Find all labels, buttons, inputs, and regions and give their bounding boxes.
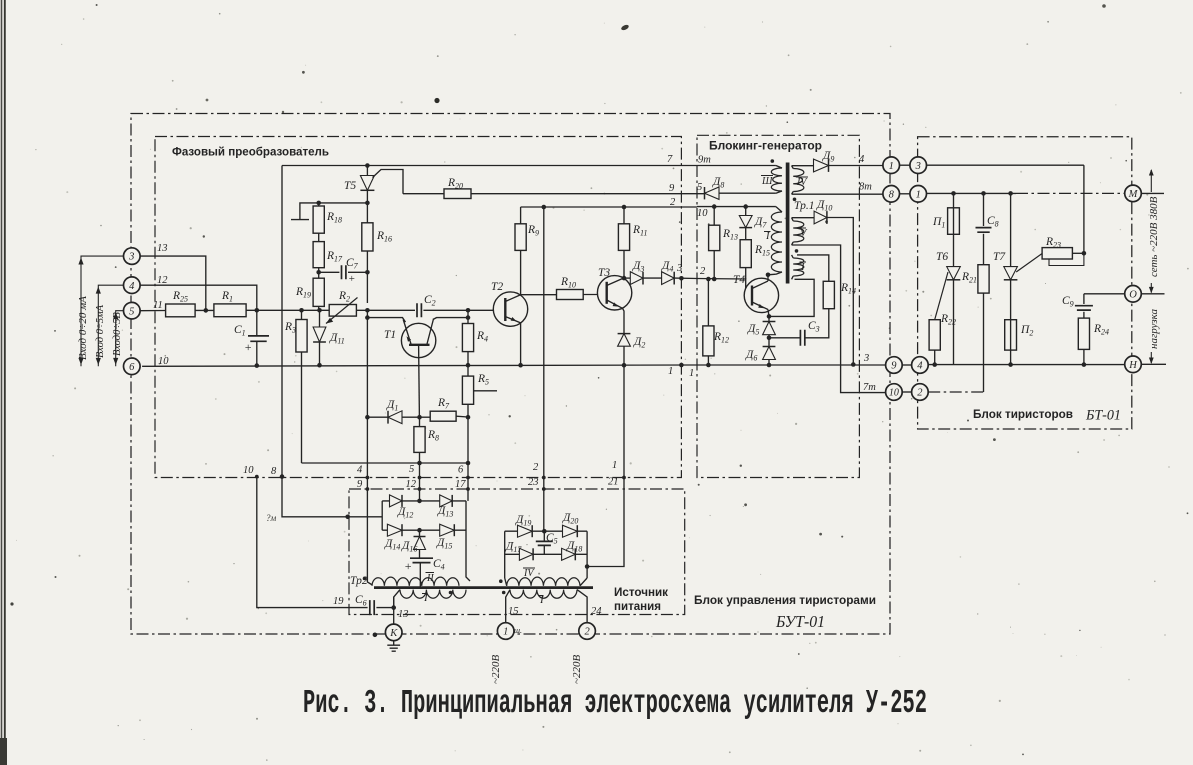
svg-text:10: 10: [158, 356, 169, 367]
diode Д15: [440, 524, 455, 536]
junction R13 bottom: [712, 277, 717, 282]
svg-text:1: 1: [916, 189, 921, 200]
wire R18top to T5 column: [319, 202, 368, 204]
terminal circle 10: [886, 384, 903, 401]
resistor R24: [1078, 318, 1089, 349]
diode D2: [618, 334, 631, 347]
svg-text:8: 8: [271, 466, 277, 477]
wire bridge1 right rail: [466, 501, 470, 581]
dimension arrow above Н: [1150, 352, 1152, 363]
transistor T3: [597, 276, 631, 310]
junction main-R3: [299, 308, 304, 313]
svg-text:24: 24: [591, 606, 602, 617]
box thyristor block BT-01: [918, 137, 1132, 429]
svg-text:Блок тиристоров: Блок тиристоров: [973, 409, 1073, 421]
terminal circle 1b: [910, 186, 927, 203]
junction R4-rail1: [466, 363, 471, 368]
junction col4/9 row489: [366, 487, 370, 491]
svg-text:5: 5: [697, 182, 702, 193]
svg-text:1: 1: [889, 161, 894, 172]
Tr2 phasing dot mid: [449, 591, 453, 595]
diode Д18: [562, 548, 576, 560]
Tr2 phasing dot left: [363, 577, 367, 581]
svg-text:2: 2: [670, 197, 676, 208]
svg-text:Н: Н: [1128, 360, 1138, 371]
diode D4: [662, 272, 675, 285]
Tr2 winding IV: [507, 577, 580, 586]
diode Д12: [390, 495, 403, 507]
diode D3: [624, 277, 630, 279]
resistor R22: [929, 320, 940, 350]
diode D10: [792, 217, 815, 219]
wire R5 stub: [474, 390, 497, 392]
svg-text:К: К: [389, 628, 398, 639]
junction col6/17 row477: [466, 476, 470, 480]
svg-text:3: 3: [676, 263, 682, 274]
svg-text:8т: 8т: [859, 182, 872, 193]
Tr1 winding I left: [771, 212, 782, 272]
wire R18 top stub: [291, 203, 319, 220]
capacitor C6: [370, 600, 374, 615]
diode Д14: [387, 524, 402, 536]
svg-text:9: 9: [357, 479, 363, 490]
svg-text:+: +: [244, 340, 252, 354]
resistor R21: [978, 265, 989, 293]
capacitor C5: [536, 541, 553, 545]
terminal circle 4b: [912, 357, 929, 374]
junction R7-R5 col: [466, 415, 471, 420]
wire 13 down to K: [393, 597, 395, 624]
wire O row: [1084, 293, 1125, 295]
wire bridge2 bottom row: [505, 553, 587, 555]
thyristor Т6: [953, 234, 955, 266]
transistor T4: [744, 278, 778, 312]
capacitor C1: [256, 310, 258, 335]
svg-text:13: 13: [398, 609, 409, 620]
Tr2 phasing dot r1: [499, 579, 503, 583]
terminal circle 2b: [912, 384, 929, 401]
resistor R4: [467, 318, 469, 324]
svg-text:15: 15: [508, 606, 519, 617]
svg-text:Т2: Т2: [491, 281, 503, 293]
terminal circle 8: [883, 186, 900, 203]
svg-text:10: 10: [889, 387, 899, 398]
wire 12 from terminal 4: [140, 285, 257, 310]
svg-text:Источник: Источник: [614, 587, 668, 599]
fuse П2: [1005, 320, 1017, 350]
svg-text:2: 2: [700, 266, 706, 277]
junction bridge1 top center: [417, 499, 422, 504]
wire bridge1 left rail: [381, 501, 383, 530]
junction R23 col: [1082, 251, 1087, 256]
wire col 5/12 down to bridge1: [419, 463, 421, 501]
capacitor C3: [769, 337, 800, 339]
junction col2/23 row477: [542, 476, 546, 480]
Tr1 winding V: [793, 221, 804, 242]
svg-text:11: 11: [153, 300, 163, 311]
outer dash-dot box BUT-01: [131, 114, 890, 635]
resistor R15: [740, 240, 751, 268]
junction D7 top: [743, 204, 748, 209]
box power supply (Источник питания): [349, 489, 685, 615]
fuse П1: [948, 208, 960, 235]
junction R12 bottom rail1: [706, 363, 711, 368]
svg-text:1: 1: [612, 460, 617, 471]
resistor R19: [313, 278, 324, 306]
resistor R5: [467, 365, 469, 376]
ground symbol: [393, 641, 395, 646]
diode D8: [705, 187, 720, 199]
input terminal circle 6: [124, 358, 141, 375]
rail1 inside BT block: [928, 364, 1124, 366]
junction col6/17 row489: [466, 487, 470, 491]
svg-text:?м: ?м: [266, 513, 277, 523]
stub right of О: [1141, 293, 1164, 295]
wire T1 base link: [367, 318, 468, 323]
junction T4 collector-winding: [766, 273, 771, 278]
terminal circle 1 (left pair top): [883, 157, 900, 174]
svg-text:Т4: Т4: [733, 274, 745, 286]
svg-text:Т5: Т5: [344, 180, 356, 192]
input terminal circle 4: [124, 277, 141, 294]
wire col 2/23 down: [543, 207, 545, 531]
svg-text:Рис. 3. Принципиальная электро: Рис. 3. Принципиальная электросхема усил…: [303, 685, 927, 722]
thyristor Т7: [1010, 193, 1012, 266]
svg-text:+: +: [404, 559, 412, 573]
junction col10 row477: [255, 475, 259, 479]
junction R13 top: [712, 204, 717, 209]
svg-text:Т7: Т7: [993, 251, 1006, 263]
svg-text:3: 3: [863, 353, 869, 364]
svg-text:I: I: [765, 231, 770, 242]
junction on bottom edge near K: [373, 633, 378, 638]
junction C2 out main: [466, 308, 471, 313]
svg-text:3: 3: [915, 161, 921, 172]
transformer Tr1 core: [786, 163, 790, 284]
stub right of Н: [1141, 363, 1166, 365]
transistor T2: [493, 292, 527, 326]
wire node8 column x=282: [282, 166, 382, 517]
Tr2 winding I left: [400, 590, 466, 599]
svg-text:2: 2: [533, 462, 539, 473]
junction col1/21 row477: [622, 476, 626, 480]
junction M row T7: [1008, 191, 1013, 196]
svg-text:7т: 7т: [863, 382, 876, 393]
diode D7: [745, 207, 747, 216]
wire T4emitter to winding I right: [769, 279, 814, 316]
rail9 R20 section: [403, 193, 705, 195]
wire between 9-4b: [902, 364, 911, 366]
resistor R18: [313, 206, 324, 233]
page edge line left: [1, 0, 3, 765]
junction D6-rail1: [767, 363, 772, 368]
resistor R9: [520, 207, 522, 224]
capacitor C7: [319, 271, 340, 273]
resistor R10: [521, 294, 557, 296]
svg-text:9: 9: [891, 361, 897, 372]
junction D11 bottom rail1: [317, 363, 322, 368]
junction R22-rail: [932, 362, 937, 367]
junction main-R19/D11: [317, 308, 322, 313]
junction R11 top rail2: [622, 205, 627, 210]
wire 7t from winding V: [792, 245, 886, 393]
svg-text:Вход 0÷5мА: Вход 0÷5мА: [95, 304, 106, 358]
diode D1: [367, 416, 388, 418]
wire node9 horizontal y=463: [302, 462, 469, 464]
junction 13 node: [391, 605, 396, 610]
wire col 6/17 down: [467, 417, 469, 501]
svg-text:6: 6: [458, 465, 464, 476]
wire node10 col down to C6: [257, 477, 368, 608]
Tr1 winding I right: [793, 258, 804, 276]
junction bridge1 bottom center: [417, 528, 422, 533]
resistor R8: [419, 417, 421, 426]
capacitor C2: [417, 303, 421, 317]
Tr2 winding I right: [510, 590, 577, 599]
junction D1 left on col4/9: [365, 415, 370, 420]
resistor R12: [707, 279, 709, 326]
resistor R1: [214, 304, 246, 317]
dimension arrow above О: [1150, 283, 1152, 293]
wire rail node1 (bottom common) y=365: [142, 365, 886, 366]
capacitor C9: [1083, 294, 1085, 304]
svg-text:~220В: ~220В: [490, 655, 502, 684]
terminal circle 2 bottom: [579, 623, 596, 640]
diode Д20: [563, 525, 578, 537]
junction col5/12 row477: [418, 476, 422, 480]
junction R25-R1 (node 13 tie): [204, 308, 209, 313]
svg-text:II: II: [426, 573, 434, 584]
box Phase converter (Фазовый преобразователь): [155, 137, 681, 478]
input range arrow 0-5V: [116, 311, 124, 367]
svg-text:21: 21: [608, 477, 619, 488]
svg-text:9т: 9т: [698, 155, 711, 166]
resistor R16: [362, 223, 373, 251]
svg-text:Т3: Т3: [598, 267, 610, 279]
resistor R13: [713, 207, 715, 226]
svg-text:ш.: ш.: [514, 626, 522, 635]
svg-text:1: 1: [668, 366, 673, 377]
svg-text:12: 12: [406, 479, 417, 490]
wire 13 from terminal 3: [140, 256, 206, 310]
svg-text:О: О: [1129, 289, 1137, 300]
svg-text:Вход 0÷20 мА: Вход 0÷20 мА: [77, 296, 89, 360]
svg-text:17: 17: [455, 479, 466, 490]
junction R8-463: [417, 461, 422, 466]
diode D5: [768, 316, 770, 321]
junction bridge2 top center: [542, 529, 547, 534]
junction M row C8: [981, 191, 986, 196]
wire between 10-2b: [902, 391, 911, 393]
junction col2/23 row489: [542, 487, 546, 491]
svg-text:1: 1: [503, 627, 508, 638]
diode Д17: [519, 548, 533, 560]
thyristor T5: [366, 166, 368, 176]
input range arrow 0-20mA: [81, 256, 124, 366]
input terminal circle 3: [124, 248, 141, 265]
svg-text:Фазовый преобразователь: Фазовый преобразователь: [172, 145, 329, 159]
junction bridge2 right rail 1/21: [585, 564, 590, 569]
terminal circle О: [1125, 286, 1142, 303]
junction R4 top: [466, 315, 471, 320]
resistor R2 (variable): [329, 305, 356, 317]
capacitor C4: [410, 558, 433, 562]
svg-text:питания: питания: [614, 601, 661, 613]
svg-text:5: 5: [409, 464, 414, 475]
resistor R14: [823, 281, 834, 308]
rail from circle1b (M row): [927, 192, 1017, 194]
svg-text:23: 23: [528, 477, 539, 488]
svg-text:нагрузка: нагрузка: [1148, 308, 1160, 349]
wire rail node7 y=165.5: [282, 165, 776, 167]
junction wire8-powerbox: [345, 515, 350, 520]
svg-text:~220В: ~220В: [571, 655, 583, 684]
svg-text:2: 2: [917, 388, 923, 399]
resistor R7: [420, 416, 431, 418]
wire R23 understub: [1049, 253, 1084, 265]
diode D11: [319, 310, 321, 327]
svg-text:Блок управления тиристорами: Блок управления тиристорами: [694, 595, 876, 607]
junction П2-rail: [1008, 362, 1013, 367]
junction C1 bottom on rail1: [254, 363, 259, 368]
junction R1-C1 (node 12 tie): [254, 308, 259, 313]
svg-text:10: 10: [243, 465, 254, 476]
terminal circle К: [385, 624, 402, 641]
junction R17-R19-C7: [316, 270, 321, 275]
junction T5col-317.6: [365, 315, 370, 320]
svg-text:Блокинг-генератор: Блокинг-генератор: [709, 139, 822, 153]
Tr2 core: [374, 586, 593, 589]
junction D10-rail1: [851, 362, 856, 367]
junction col4/9 row477: [366, 476, 370, 480]
svg-text:сеть ~220В 380В: сеть ~220В 380В: [1148, 196, 1160, 277]
wire bridge1 top row: [382, 500, 466, 502]
svg-text:Т6: Т6: [936, 251, 948, 263]
svg-text:9: 9: [669, 183, 675, 194]
wire T5 column down (node 4/9): [367, 310, 372, 585]
svg-text:4: 4: [917, 361, 923, 372]
svg-text:БУТ-01: БУТ-01: [775, 612, 825, 631]
junction main-T5col: [365, 308, 370, 313]
junction 463 right end: [466, 461, 471, 466]
junction rail1 at phase edge: [679, 363, 684, 368]
junction node 8: [280, 474, 285, 479]
resistor R23: [1042, 248, 1072, 259]
resistor R3: [301, 310, 303, 319]
Tr1 phasing dots: [771, 159, 775, 163]
terminal circle 3 (right pair top): [910, 157, 927, 174]
junction R9 via rail2: [542, 205, 547, 210]
wire bridge1 bottom row: [382, 529, 466, 531]
Tr2 winding II: [372, 577, 459, 586]
junction D5-D6-C3: [767, 336, 772, 341]
junction d3d4 wire at phase edge: [679, 276, 684, 281]
svg-text:1: 1: [689, 368, 694, 379]
terminal circle 9: [886, 357, 903, 374]
junction C7-T5col: [365, 270, 370, 275]
junction T5col-202.9: [365, 201, 370, 206]
terminal circle Н: [1125, 356, 1142, 373]
box Blocking generator (Блокинг-генератор): [697, 135, 859, 477]
svg-text:6: 6: [129, 362, 135, 373]
svg-text:3: 3: [128, 252, 134, 263]
resistor R17: [313, 242, 324, 268]
diode Д13: [440, 495, 453, 507]
diode D9: [792, 165, 814, 167]
dimension arrow above М: [1150, 170, 1152, 192]
diode D6: [768, 338, 770, 347]
junction R24-rail: [1082, 362, 1087, 367]
wire bridge2 rails: [505, 531, 587, 578]
svg-text:2: 2: [584, 627, 590, 638]
svg-text:+: +: [348, 273, 355, 285]
svg-text:5: 5: [129, 306, 134, 317]
resistor R11: [623, 207, 625, 224]
input range arrow 0-5mA: [98, 285, 123, 366]
svg-text:4: 4: [357, 465, 363, 476]
svg-text:4: 4: [859, 154, 865, 165]
diode Д16: [419, 530, 421, 536]
terminal circle 1 bottom: [497, 623, 514, 640]
svg-text:12: 12: [157, 275, 168, 286]
rail from circle3 to R23 col: [927, 164, 1084, 166]
junction D1-R7-R8-T1: [417, 415, 422, 420]
wire circle2b row to R21: [928, 391, 983, 393]
diode Д19: [518, 525, 533, 537]
transistor T1: [401, 323, 435, 357]
wire R23 column up to rail165: [1083, 165, 1085, 253]
junction D2-rail1 (node 1/21): [622, 363, 627, 368]
junction R18 top: [316, 201, 321, 206]
svg-text:8: 8: [889, 189, 895, 200]
svg-text:М: М: [1128, 189, 1139, 200]
svg-text:10: 10: [697, 208, 708, 219]
svg-text:4: 4: [129, 281, 135, 292]
svg-text:I: I: [800, 262, 805, 273]
svg-text:Ш: Ш: [761, 176, 773, 187]
wire 8t row: [792, 193, 883, 195]
input terminal circle 5: [124, 302, 141, 319]
junction T2 emitter rail1: [518, 363, 523, 368]
wire rail node2 y=207: [521, 206, 776, 208]
junction R12 top: [706, 277, 711, 282]
svg-text:Т1: Т1: [384, 329, 396, 341]
junction T5 top on rail7: [365, 163, 370, 168]
svg-text:БТ-01: БТ-01: [1085, 408, 1121, 424]
scan blotches: [434, 98, 439, 103]
wire bridge2 top row: [505, 530, 587, 532]
junction T4 emitter node: [767, 314, 772, 319]
resistor R25: [166, 304, 196, 317]
junction T3 collector node: [622, 276, 627, 281]
resistor R20: [444, 189, 471, 199]
junction col5/12 row489: [418, 487, 422, 491]
svg-text:7: 7: [667, 154, 673, 165]
wire C2out down to T1 wire: [467, 310, 469, 317]
svg-text:19: 19: [333, 596, 344, 607]
junction M row P1: [951, 191, 956, 196]
svg-text:Тр.1: Тр.1: [794, 200, 814, 212]
wire between 8-1b: [900, 193, 910, 195]
wire main signal y=310: [140, 309, 500, 311]
stub right of М: [1141, 192, 1164, 194]
svg-text:Тр2: Тр2: [350, 575, 368, 587]
wire col 1/21 down: [587, 365, 624, 566]
svg-text:Вход0÷5В: Вход0÷5В: [112, 312, 123, 356]
wire between 1-3: [900, 164, 910, 166]
capacitor C8: [983, 193, 985, 226]
Tr1 winding III: [771, 168, 782, 191]
